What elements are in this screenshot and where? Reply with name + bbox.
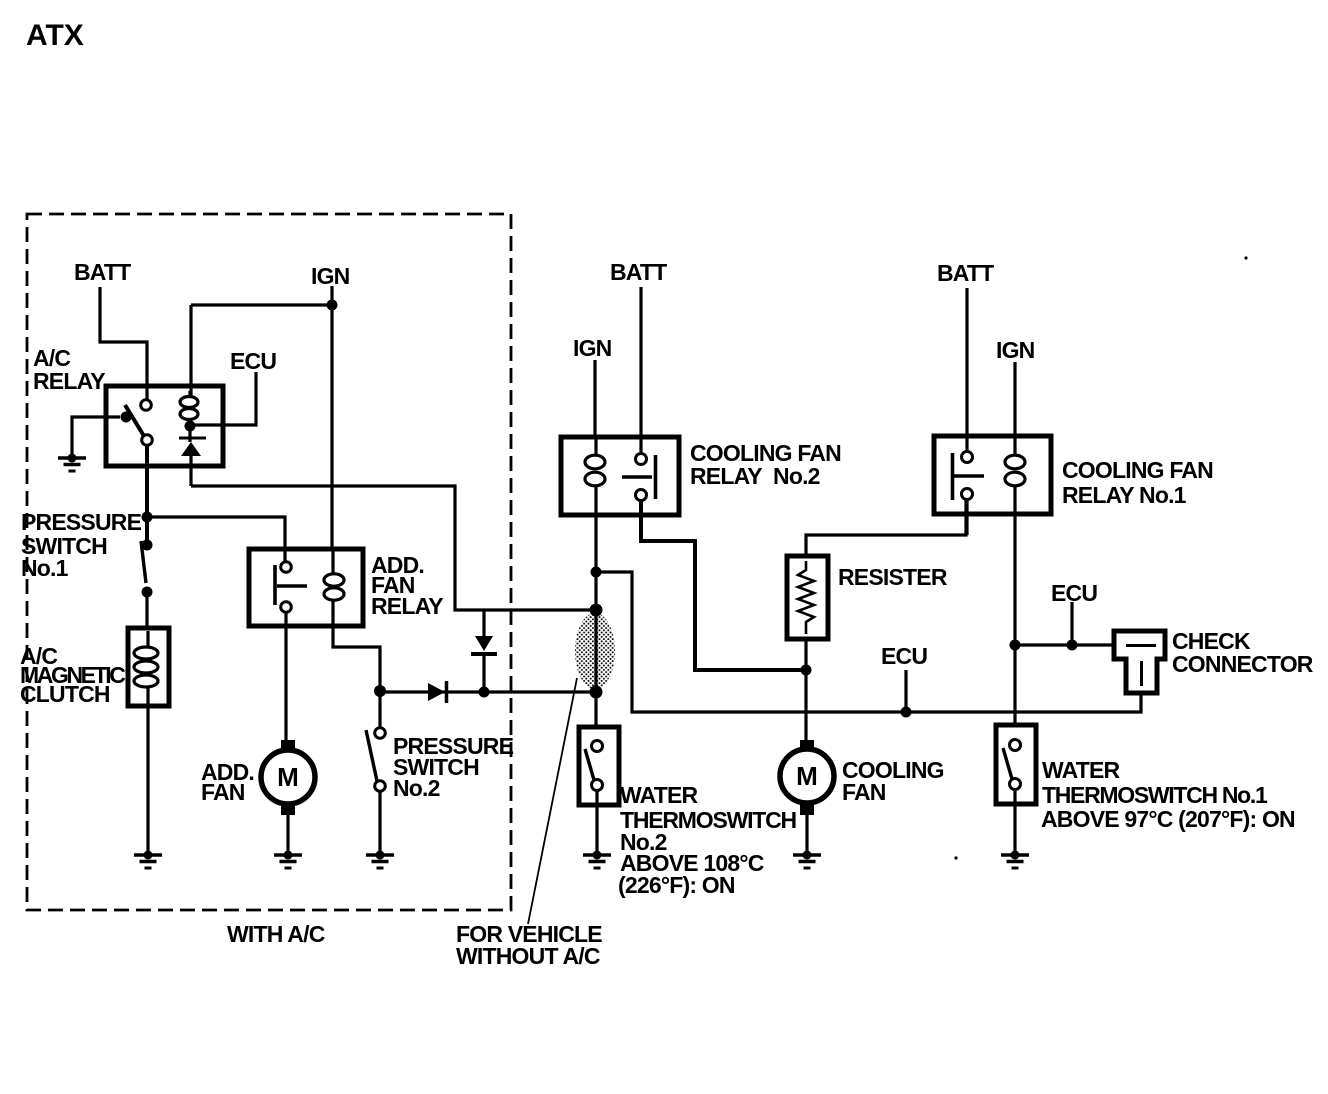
svg-text:CONNECTOR: CONNECTOR [1172, 651, 1314, 677]
svg-text:No.2: No.2 [393, 775, 440, 801]
svg-text:CLUTCH: CLUTCH [20, 681, 110, 707]
svg-text:COOLING FAN: COOLING FAN [1062, 457, 1213, 483]
svg-text:IGN: IGN [573, 335, 612, 361]
svg-text:RESISTER: RESISTER [838, 564, 948, 590]
svg-text:ECU: ECU [881, 643, 927, 669]
svg-text:BATT: BATT [937, 260, 994, 286]
svg-text:PRESSURE: PRESSURE [21, 509, 142, 535]
svg-text:WITH A/C: WITH A/C [227, 921, 325, 947]
svg-text:ABOVE 97°C (207°F): ON: ABOVE 97°C (207°F): ON [1041, 806, 1295, 832]
svg-text:IGN: IGN [996, 337, 1035, 363]
svg-text:BATT: BATT [74, 259, 131, 285]
svg-text:BATT: BATT [610, 259, 667, 285]
svg-text:FAN: FAN [201, 779, 245, 805]
svg-text:RELAY: RELAY [33, 368, 105, 394]
svg-text:M: M [796, 761, 818, 791]
svg-text:THERMOSWITCH No.1: THERMOSWITCH No.1 [1042, 782, 1268, 808]
svg-text:RELAY No.1: RELAY No.1 [1062, 482, 1187, 508]
svg-text:RELAY No.2: RELAY No.2 [690, 463, 820, 489]
svg-text:RELAY: RELAY [371, 593, 443, 619]
svg-text:No.1: No.1 [21, 555, 69, 581]
svg-text:ATX: ATX [26, 19, 84, 52]
svg-text:ECU: ECU [230, 348, 276, 374]
svg-text:M: M [277, 762, 299, 792]
svg-text:FAN: FAN [842, 779, 886, 805]
svg-text:WATER: WATER [1042, 757, 1121, 783]
svg-text:IGN: IGN [311, 263, 350, 289]
svg-text:ECU: ECU [1051, 580, 1097, 606]
svg-text:(226°F): ON: (226°F): ON [618, 872, 735, 898]
svg-text:WATER: WATER [620, 782, 699, 808]
svg-text:WITHOUT A/C: WITHOUT A/C [456, 943, 600, 969]
